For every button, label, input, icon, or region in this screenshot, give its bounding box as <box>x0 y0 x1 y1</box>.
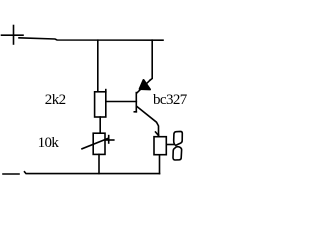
load resistor body <box>154 135 166 155</box>
resistor R1 2k2 body <box>95 90 106 117</box>
bottom rail wire left dash <box>3 173 19 175</box>
svg-text:2k2: 2k2 <box>45 92 66 108</box>
wire load to fan <box>166 144 174 146</box>
svg-text:bc327: bc327 <box>153 92 188 108</box>
wire pot to bottom rail <box>98 154 100 173</box>
transistor Q1 bc327 <box>134 80 158 137</box>
wire emitter from top rail <box>150 40 152 80</box>
wire top rail to 2k2 resistor <box>97 40 99 91</box>
wire 2k2 to 10k pot <box>99 117 101 133</box>
svg-text:10k: 10k <box>38 135 60 151</box>
fan / motor symbol bottom blade <box>173 147 182 160</box>
fan / motor symbol top blade <box>174 131 183 145</box>
bottom rail wire <box>25 172 160 174</box>
top rail wire <box>19 38 163 40</box>
wire bottom rail up to load <box>159 155 161 174</box>
+ supply symbol <box>2 26 24 45</box>
potentiometer P1 10k body <box>82 133 114 154</box>
wire base: resistor to transistor base <box>106 101 137 103</box>
